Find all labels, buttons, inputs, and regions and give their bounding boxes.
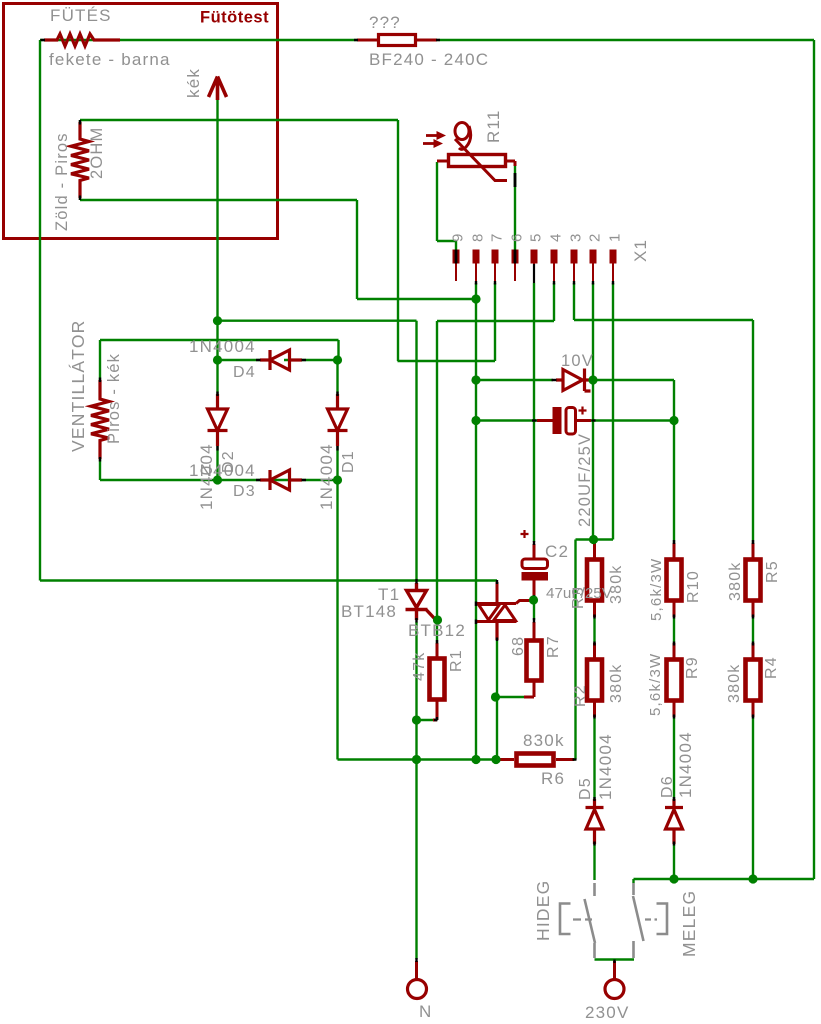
svg-text:Zöld - Piros: Zöld - Piros [53,132,71,231]
wire col2 down to R10 [673,420,675,543]
svg-text:5: 5 [528,232,545,242]
wire D1 bottom lead [336,431,338,480]
wire switch bottom [595,958,635,960]
diode D2 [208,394,228,446]
svg-text:3: 3 [568,232,585,242]
wire W1 vertical to T1 anode [415,321,417,581]
wire D6 to bus2 [673,843,675,879]
wire col2 corner down [673,380,675,420]
svg-text:380k: 380k [727,562,744,602]
wire T1 cathode N column [415,622,417,959]
diode D6 [665,799,683,844]
resistor VENTILLÁTOR zigzag [91,380,109,459]
wire C2 bottom to gate node [533,596,535,600]
svg-text:R2: R2 [572,684,589,707]
wire right column to R5 [752,320,754,543]
switch MELEG [633,883,644,958]
resistor R7 [524,622,534,697]
wire R11 left to pin9 [437,240,456,242]
svg-text:X1: X1 [631,239,650,262]
svg-text:380k: 380k [726,664,743,704]
svg-text:kék: kék [184,68,203,98]
svg-text:220UF/25V: 220UF/25V [576,433,594,527]
svg-text:5,6k/3W: 5,6k/3W [648,558,665,621]
svg-text:8: 8 [470,232,487,242]
wire pin7 horizontal [398,360,496,362]
svg-text:R1: R1 [448,649,465,672]
svg-text:5,6k/3W: 5,6k/3W [647,653,664,716]
svg-text:380k: 380k [608,565,625,605]
wire vertical x398 to pin7 row [397,120,399,361]
svg-text:830k: 830k [523,731,565,750]
wire D1 top lead [336,360,338,396]
wire zener anode [476,379,553,381]
wire MT1 vertical [496,623,498,760]
junction tick marks [41,39,46,41]
wire bottom bus left [338,758,497,760]
capacitor C2 [522,559,548,569]
wire R3 to R2 [593,615,595,645]
svg-text:68: 68 [510,636,527,656]
diode D1 [328,394,348,446]
wire 2OHM bottom horizontal [80,194,357,200]
diode D4 [260,350,302,370]
svg-text:1N4004: 1N4004 [676,731,695,798]
wire R7 bottom horizontal [496,696,535,698]
svg-text:10V: 10V [561,352,594,370]
wire C2 node left [576,538,594,540]
svg-text:FÜTÉS: FÜTÉS [50,6,112,25]
junction dots [213,316,222,325]
resistor R10 [673,543,676,617]
resistor ??? BF240 box [357,39,437,42]
triac BTB12 [476,582,529,622]
svg-text:R7: R7 [545,635,562,658]
wire pin2 vertical [592,283,594,540]
label X1 pin numbers [450,232,624,242]
wire R1 bottom link [417,719,435,721]
svg-text:Piros - kék: Piros - kék [105,353,123,444]
wire right edge vertical down to bottom bus [813,40,815,879]
svg-text:C2: C2 [545,542,569,561]
wire left vertical live column [39,40,41,581]
wire R4 to bus2 [752,715,754,879]
wire R9 to D6 [673,715,675,800]
svg-text:N: N [419,1002,432,1021]
wire 2OHM top horizontal [80,120,398,126]
svg-text:BTB12: BTB12 [408,621,466,640]
resistor R6 [497,758,574,761]
wire live bus horizontal [40,579,497,581]
wire D4 row [218,359,338,361]
wire D1 bottom column down [336,480,338,760]
svg-text:BT148: BT148 [341,602,397,621]
wire R5 to R4 [752,615,754,645]
wire cap left [476,419,552,421]
resistor R1 [433,643,437,720]
wire ventilator top [100,339,339,341]
svg-text:R6: R6 [541,769,565,788]
wire D5 to HIDEG [593,843,595,880]
resistor FÜTÉS zigzag [44,34,120,46]
svg-text:2: 2 [587,232,604,242]
resistor R5 [752,543,755,617]
terminal 230V [605,980,624,999]
wire zener cathode to col2 [593,379,674,381]
connector X1 pads [453,250,617,264]
svg-text:R5: R5 [764,560,781,583]
svg-text:VENTILLÁTOR: VENTILLÁTOR [68,320,88,453]
wire bus2 corner to MELEG [632,879,634,883]
wire bottom bus 2 [634,878,815,880]
svg-text:BF240 - 240C: BF240 - 240C [369,50,489,69]
svg-text:7: 7 [489,232,506,242]
wire pin4 stub [553,283,555,321]
wire R6 right to vertical [556,758,576,760]
wire pin1 to C2 node [593,538,613,540]
wire pin8 long vertical [475,283,477,760]
wire R10 to R9 [673,615,675,645]
resistor R2 [593,643,596,717]
wire pin9 entry [455,241,457,251]
svg-text:1N4004: 1N4004 [596,733,615,800]
antenna arrow kék [209,77,227,101]
svg-text:D3: D3 [233,483,256,500]
thyristor T1 BT148 [406,583,435,620]
terminal N [408,980,427,999]
wire ventilator top corner down [337,340,339,360]
wire pin5 vertical to C2 [533,283,535,542]
wire pin3 to right column [574,319,753,321]
svg-text:380k: 380k [608,664,625,704]
svg-text:D5: D5 [577,777,594,800]
wire BF240 right to top-right corner [437,39,814,41]
wire cap right [576,419,674,421]
wire R11 right to pin6 [514,162,516,251]
svg-text:D1: D1 [340,450,357,473]
svg-text:D4: D4 [233,364,256,381]
resistor 2OHM zigzag [71,122,89,198]
svg-text:R9: R9 [684,656,701,679]
wire pin4 horizontal [437,320,554,322]
switch HIDEG [585,883,596,958]
wire W1 horizontal to T1 anode column [218,320,417,322]
svg-text:MELEG: MELEG [679,890,699,957]
svg-text:1N4004: 1N4004 [317,443,336,510]
svg-text:4: 4 [548,232,565,242]
wire bridge bottom [100,479,338,481]
wire pin7 vertical [494,283,496,361]
svg-text:230V: 230V [585,1003,630,1022]
svg-text:1: 1 [607,232,624,242]
diode D5 [586,799,604,844]
svg-text:2OHM: 2OHM [88,127,106,179]
wire down to R6 right [574,540,576,760]
resistor R3 [593,543,596,617]
wire kék arrow vertical [216,99,218,360]
wire ventilator top lead [99,340,101,380]
resistor R9 [673,643,676,717]
wire to pin8 junction [357,298,476,300]
svg-text:9: 9 [450,232,467,242]
svg-text:???: ??? [369,13,401,32]
diode D3 [260,470,302,490]
wire gate node down to R7 [533,600,535,620]
svg-text:1N4004: 1N4004 [189,337,256,356]
wire gate lead green part [528,599,534,601]
wire D2 bottom lead [216,431,218,480]
resistor R4 [752,643,755,717]
wire ventilator bottom lead [99,459,101,480]
wire top net from FÜTÉS to BF240 [40,39,357,41]
svg-text:1N4004: 1N4004 [189,461,256,480]
svg-text:R10: R10 [685,570,702,603]
wire pin1 vertical [612,283,614,540]
wire W2 vertical pin4 to gate and R1 [436,321,438,643]
frame Fütötest box [4,4,278,239]
svg-text:D6: D6 [659,775,676,798]
zener diode 10V [556,369,592,392]
wire pin3 stub down [573,283,575,320]
svg-text:R3: R3 [570,586,587,609]
capacitor 220UF/25V [553,407,562,434]
thermistor R11 [437,161,515,166]
wire vertical x357 down [356,200,358,299]
svg-text:HIDEG: HIDEG [533,880,553,941]
svg-text:R11: R11 [484,109,503,143]
svg-text:R4: R4 [763,656,780,679]
wire R11 left vertical [436,162,438,241]
svg-text:47k: 47k [411,652,428,681]
wire D2 top lead [216,360,218,396]
wire R2 to D5 [593,715,595,800]
svg-text:6: 6 [509,232,526,242]
svg-text:fekete - barna: fekete - barna [49,50,171,69]
svg-text:Fütötest: Fütötest [200,9,269,27]
